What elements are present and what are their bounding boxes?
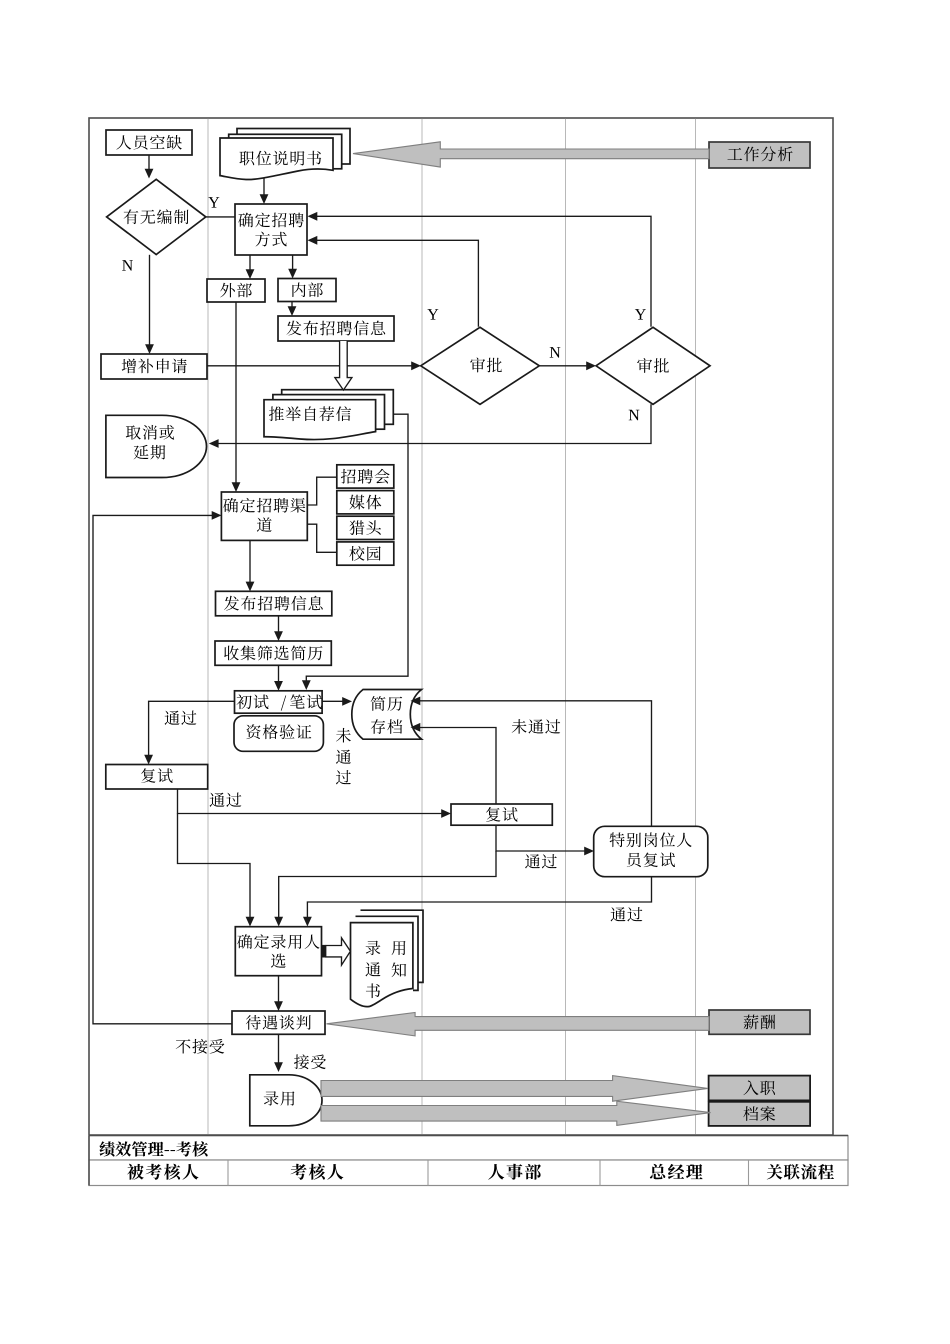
wire 特别岗位人员复试→确定录用人选 (通过) <box>307 877 651 919</box>
wire 内部→发布招聘信息 <box>291 302 293 309</box>
text 绩效管理--考核 <box>100 1141 208 1156</box>
gray block arrow 录用→档案 <box>321 1101 711 1125</box>
wire 审批2→确定招聘方式 feedback <box>315 216 651 326</box>
wire 特别岗位人员复试→简历存档 (未通过) <box>418 701 652 827</box>
rounded box 资格验证 <box>234 716 323 752</box>
wire 初试笔试→简历存档 (未通过) <box>322 700 344 702</box>
text 入职 <box>743 1080 775 1095</box>
multidoc 职位说明书 <box>220 129 350 180</box>
text 考核人 <box>291 1164 344 1180</box>
wire 收集筛选简历→初试笔试 <box>278 665 280 683</box>
wire 确定招聘渠道→发布招聘信息2 <box>249 540 251 583</box>
text 工作分析 <box>727 147 792 162</box>
label N 审批2 <box>629 410 640 420</box>
text 录用通知书 <box>366 941 381 955</box>
wire 待遇谈判→录用 (接受) <box>278 1034 280 1064</box>
wire 初试笔试→复试1 (通过) <box>149 701 235 756</box>
wire 增补申请→审批1 <box>207 365 413 367</box>
text 有无编制 <box>124 209 189 224</box>
text 被考核人 <box>127 1164 198 1180</box>
text 招聘会 <box>341 469 390 484</box>
box 初试/笔试 <box>235 691 323 713</box>
text 审批1 <box>470 358 502 373</box>
lane line 2 <box>421 119 423 1134</box>
wire 确定招聘渠道→channel bracket <box>307 477 337 505</box>
text 收集筛选简历 <box>224 645 322 660</box>
wire 确定录用人选→待遇谈判 <box>278 976 280 1003</box>
text 确定招聘渠道 <box>223 498 305 513</box>
delay 取消或延期 <box>106 415 207 477</box>
gray box 档案 <box>709 1102 811 1126</box>
wire 确定招聘方式→外部 <box>249 255 251 271</box>
text 复试2 <box>486 807 517 822</box>
text 人员空缺 <box>116 135 181 150</box>
wire 复试2→简历存档 (未通过) <box>418 728 496 805</box>
hollow arrow 确定录用人选→录用通知书 <box>322 938 351 965</box>
text 职位说明书 <box>239 151 321 166</box>
lane line 3 <box>565 119 567 1134</box>
rounded box 特别岗位人员复试 <box>594 826 708 876</box>
wire 复试1→复试2 (通过) <box>178 789 444 814</box>
box 内部 <box>278 279 336 302</box>
box 招聘会 <box>337 465 394 488</box>
text 录用 <box>264 1091 295 1105</box>
wire 有无编制→增补申请 (N) <box>149 255 151 346</box>
gray box 薪酬 <box>709 1010 810 1034</box>
table header row <box>89 1160 848 1186</box>
box 确定录用人选 <box>235 927 321 976</box>
text 关联流程 <box>767 1164 834 1180</box>
diamond 有无编制 <box>107 179 206 254</box>
box 猎头 <box>337 516 394 539</box>
text 复试1 <box>141 768 172 783</box>
box 增补申请 <box>101 354 207 379</box>
stored-data 简历存档 <box>352 690 422 740</box>
wire 复试2→确定录用人选 <box>279 851 496 919</box>
label 未通过 vertical <box>336 728 351 743</box>
text 简历存档 <box>371 696 402 711</box>
label Y 审批2 <box>635 309 646 319</box>
wire 审批1→确定招聘方式 feedback <box>315 240 478 326</box>
label 未通过 2 <box>512 719 560 734</box>
wire 复试1→确定录用人选 <box>178 814 251 919</box>
lane line 1 <box>207 119 209 1134</box>
text 外部 <box>220 283 252 298</box>
label 通过 3 <box>525 854 557 868</box>
wire 人员空缺→有无编制 <box>148 155 150 170</box>
text 档案 <box>743 1106 775 1121</box>
box 复试 2 <box>451 804 552 825</box>
diamond 审批 1 <box>421 327 540 404</box>
label N 审批1 <box>550 347 561 357</box>
box 外部 <box>207 279 265 302</box>
label Y 有无编制 <box>208 197 219 207</box>
label 通过 1 <box>165 711 197 725</box>
gray block arrow 录用→入职 <box>321 1076 708 1102</box>
box 确定招聘方式 <box>235 204 307 255</box>
wire 外部→确定招聘渠道 <box>235 302 237 484</box>
box 媒体 <box>337 491 394 514</box>
box 收集筛选简历 <box>215 641 331 665</box>
wire 审批2→取消或延期 (N) <box>217 404 652 443</box>
box 待遇谈判 <box>232 1011 325 1034</box>
gray block arrow 工作分析→职位说明书 <box>353 142 709 167</box>
text 媒体 <box>349 495 381 510</box>
lane line 4 <box>695 119 697 1134</box>
gray block arrow 薪酬→待遇谈判 <box>327 1013 710 1036</box>
wire 确定招聘方式→内部 <box>292 255 294 271</box>
label Y 审批1 <box>427 309 438 319</box>
text 审批2 <box>637 358 669 373</box>
swimlane frame border <box>89 118 833 1135</box>
wire 有无编制→确定招聘方式 (Y) <box>206 216 235 218</box>
text 初试/笔试 <box>237 694 269 709</box>
label N 有无编制 <box>122 260 133 270</box>
text 取消或延期 <box>126 425 174 440</box>
box 确定招聘渠道 <box>221 492 307 540</box>
hollow arrow 发布招聘信息→推举自荐信 <box>335 341 352 390</box>
wire 复试2→特别岗位人员复试 (通过) <box>496 825 586 851</box>
multidoc 录用通知书 <box>351 910 424 1006</box>
text 发布招聘信息1 <box>286 321 385 336</box>
label 不接受 <box>176 1039 225 1054</box>
text 推举自荐信 <box>269 406 351 421</box>
diamond 审批 2 <box>596 327 710 404</box>
label 接受 <box>294 1054 326 1069</box>
wire 不接受 feedback 待遇谈判→确定招聘渠道 <box>93 515 232 1023</box>
text 特别岗位人员复试 <box>610 832 692 847</box>
wire 发布招聘信息2→收集筛选简历 <box>278 616 280 633</box>
text 资格验证 <box>246 724 311 739</box>
wire 职位说明书→确定招聘方式 <box>263 178 265 197</box>
delay 录用 <box>250 1075 322 1126</box>
text 猎头 <box>349 520 381 535</box>
text 确定录用人选 <box>237 934 319 949</box>
table row 绩效管理--考核 <box>89 1136 848 1161</box>
text 校园 <box>349 546 381 561</box>
wire 审批1→审批2 (N) <box>539 365 588 367</box>
table outer dark edges <box>89 1135 848 1137</box>
label 通过 4 <box>611 907 643 921</box>
text 内部 <box>292 282 323 297</box>
box 人员空缺 <box>106 130 192 155</box>
text 发布招聘信息2 <box>224 596 323 611</box>
label 通过 2 <box>210 793 242 807</box>
text 总经理 <box>650 1164 703 1180</box>
gray box 入职 <box>709 1076 811 1101</box>
wire 推举自荐信→初试笔试 <box>306 414 408 682</box>
text 人事部 <box>488 1164 541 1180</box>
box 发布招聘信息 1 <box>278 316 394 341</box>
box 复试 1 <box>106 765 208 790</box>
text 待遇谈判 <box>246 1015 311 1030</box>
box 校园 <box>337 542 394 565</box>
text 薪酬 <box>744 1015 776 1030</box>
gray box 工作分析 <box>709 142 810 168</box>
multidoc 推举自荐信 <box>264 390 393 440</box>
text 确定招聘方式 <box>238 213 303 228</box>
text 增补申请 <box>122 359 187 374</box>
box 发布招聘信息 2 <box>216 591 332 616</box>
